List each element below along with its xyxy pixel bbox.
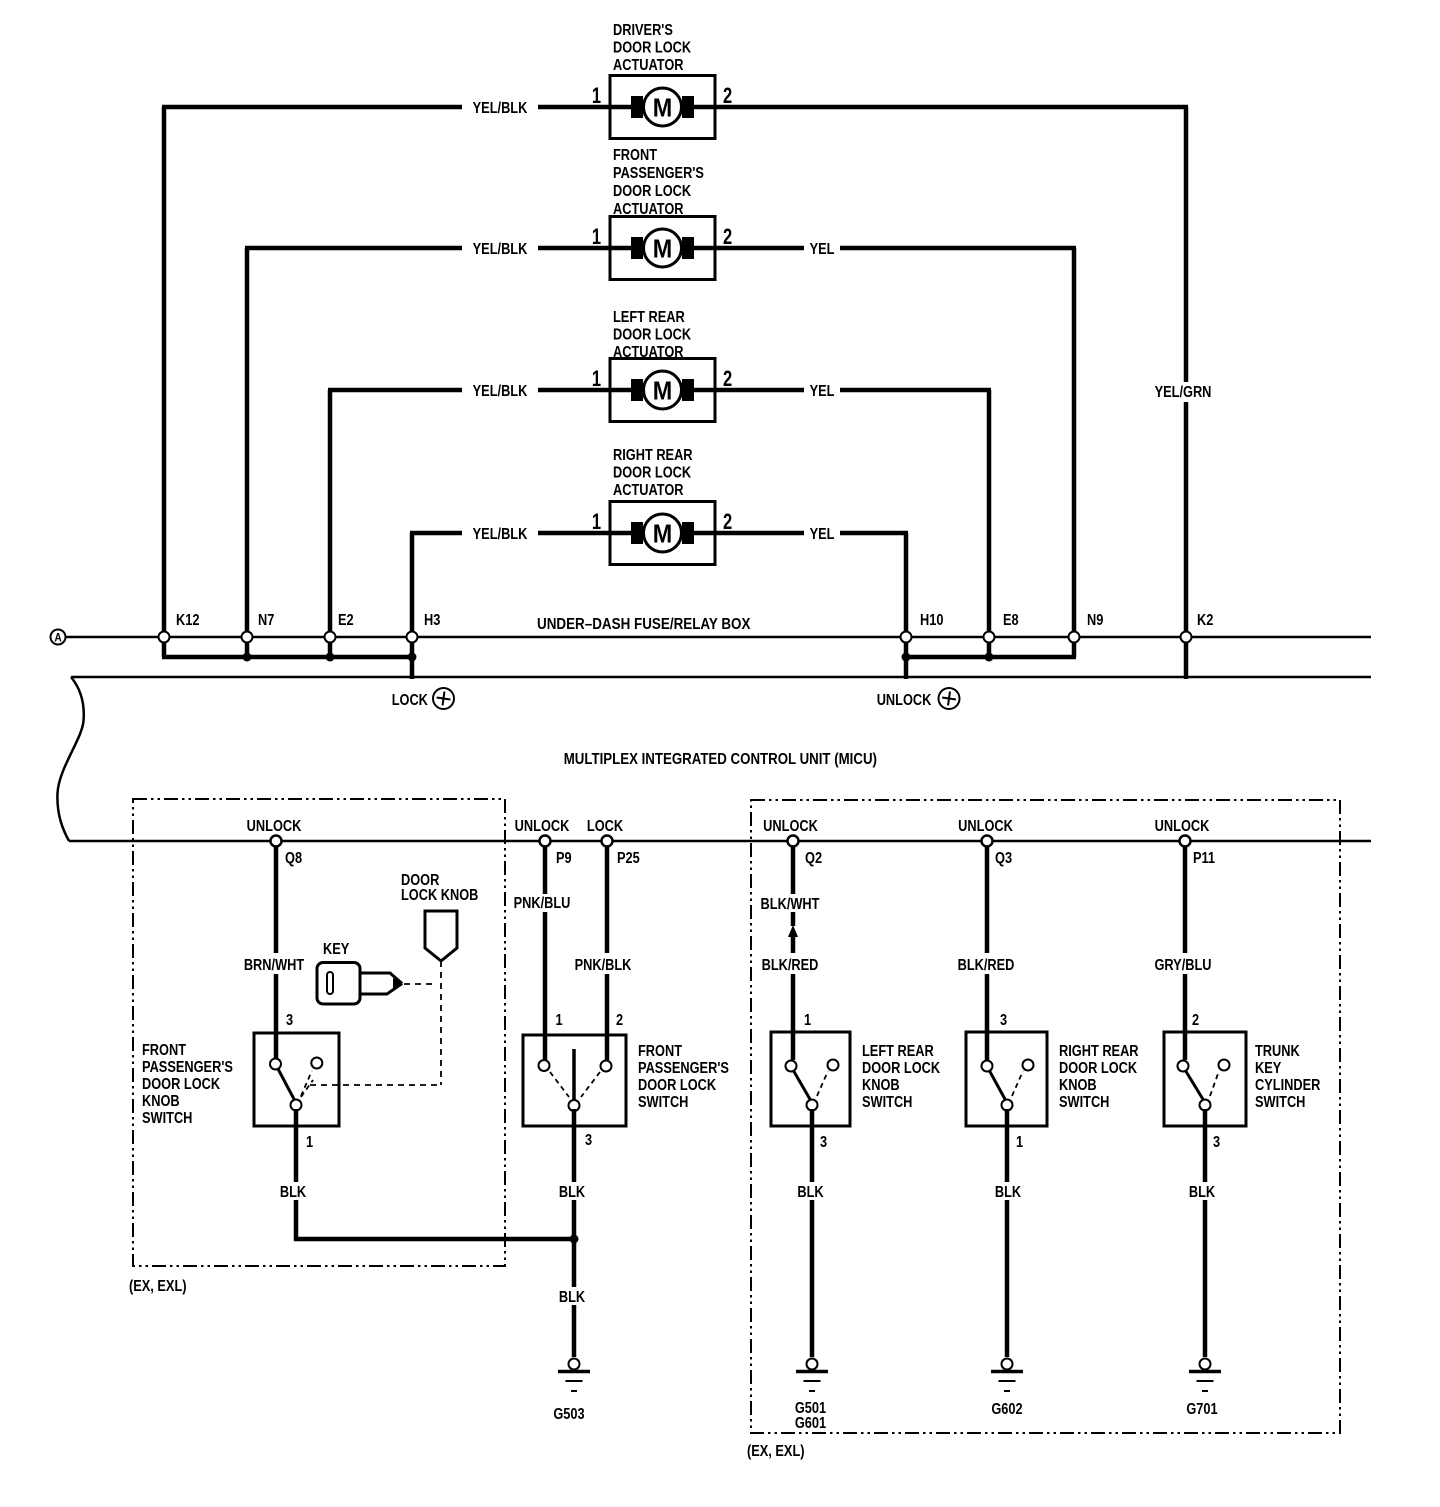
svg-text:DOOR LOCK: DOOR LOCK xyxy=(1059,1060,1138,1078)
svg-text:KNOB: KNOB xyxy=(1059,1077,1097,1095)
svg-text:YEL/BLK: YEL/BLK xyxy=(473,383,528,401)
svg-text:G701: G701 xyxy=(1186,1401,1217,1419)
svg-text:KEY: KEY xyxy=(323,941,350,959)
svg-text:DOOR LOCK: DOOR LOCK xyxy=(862,1060,941,1078)
svg-text:UNLOCK: UNLOCK xyxy=(877,692,932,710)
svg-text:UNLOCK: UNLOCK xyxy=(763,818,818,836)
svg-text:DOOR LOCK: DOOR LOCK xyxy=(142,1076,221,1094)
svg-text:FRONT: FRONT xyxy=(638,1043,682,1061)
svg-text:2: 2 xyxy=(1192,1012,1199,1030)
svg-text:ACTUATOR: ACTUATOR xyxy=(613,482,684,500)
svg-text:YEL: YEL xyxy=(810,526,835,544)
svg-text:(EX, EXL): (EX, EXL) xyxy=(747,1443,805,1461)
svg-text:KNOB: KNOB xyxy=(142,1093,180,1111)
svg-text:YEL/BLK: YEL/BLK xyxy=(473,100,528,118)
svg-text:KEY: KEY xyxy=(1255,1060,1282,1078)
svg-text:KNOB: KNOB xyxy=(862,1077,900,1095)
svg-text:LEFT REAR: LEFT REAR xyxy=(862,1043,934,1061)
svg-text:BLK/WHT: BLK/WHT xyxy=(761,896,820,914)
svg-text:2: 2 xyxy=(723,510,732,535)
svg-text:UNLOCK: UNLOCK xyxy=(1155,818,1210,836)
svg-text:LEFT REAR: LEFT REAR xyxy=(613,309,685,327)
svg-text:DRIVER'S: DRIVER'S xyxy=(613,22,673,40)
svg-text:PASSENGER'S: PASSENGER'S xyxy=(142,1059,233,1077)
svg-text:G601: G601 xyxy=(795,1415,826,1433)
svg-text:2: 2 xyxy=(616,1012,623,1030)
svg-text:MULTIPLEX INTEGRATED CONTROL U: MULTIPLEX INTEGRATED CONTROL UNIT (MICU) xyxy=(564,751,877,768)
svg-text:BLK/RED: BLK/RED xyxy=(958,957,1015,975)
svg-text:UNDER–DASH FUSE/RELAY BOX: UNDER–DASH FUSE/RELAY BOX xyxy=(537,616,751,633)
svg-text:DOOR LOCK: DOOR LOCK xyxy=(613,183,692,201)
svg-text:H10: H10 xyxy=(920,612,943,630)
svg-text:Q2: Q2 xyxy=(805,850,822,868)
svg-text:2: 2 xyxy=(723,225,732,250)
svg-text:SWITCH: SWITCH xyxy=(142,1110,192,1128)
svg-text:3: 3 xyxy=(1000,1012,1007,1030)
svg-text:TRUNK: TRUNK xyxy=(1255,1043,1300,1061)
svg-text:1: 1 xyxy=(592,84,601,109)
svg-text:H3: H3 xyxy=(424,612,440,630)
svg-text:E8: E8 xyxy=(1003,612,1019,630)
svg-text:N9: N9 xyxy=(1087,612,1103,630)
svg-text:PASSENGER'S: PASSENGER'S xyxy=(613,165,704,183)
svg-text:G602: G602 xyxy=(991,1401,1022,1419)
svg-text:M: M xyxy=(653,235,672,263)
svg-text:LOCK: LOCK xyxy=(392,692,429,710)
svg-text:SWITCH: SWITCH xyxy=(638,1094,688,1112)
svg-text:ACTUATOR: ACTUATOR xyxy=(613,57,684,75)
svg-text:DOOR LOCK: DOOR LOCK xyxy=(613,464,692,482)
svg-text:DOOR LOCK: DOOR LOCK xyxy=(613,39,692,57)
svg-text:BLK: BLK xyxy=(995,1184,1022,1202)
svg-text:RIGHT REAR: RIGHT REAR xyxy=(1059,1043,1139,1061)
svg-text:BRN/WHT: BRN/WHT xyxy=(244,957,304,975)
svg-text:LOCK: LOCK xyxy=(587,818,624,836)
svg-text:M: M xyxy=(653,377,672,405)
svg-text:UNLOCK: UNLOCK xyxy=(958,818,1013,836)
svg-text:G503: G503 xyxy=(553,1406,584,1424)
svg-text:M: M xyxy=(653,520,672,548)
svg-text:BLK: BLK xyxy=(1189,1184,1216,1202)
svg-text:3: 3 xyxy=(1213,1134,1220,1152)
svg-text:(EX, EXL): (EX, EXL) xyxy=(129,1278,187,1296)
svg-text:K2: K2 xyxy=(1197,612,1213,630)
svg-text:P9: P9 xyxy=(556,850,572,868)
svg-text:DOOR LOCK: DOOR LOCK xyxy=(638,1077,717,1095)
svg-text:FRONT: FRONT xyxy=(613,147,657,165)
svg-text:DOOR LOCK: DOOR LOCK xyxy=(613,326,692,344)
svg-text:UNLOCK: UNLOCK xyxy=(247,818,302,836)
svg-text:BLK: BLK xyxy=(797,1184,824,1202)
svg-text:PNK/BLU: PNK/BLU xyxy=(514,895,571,913)
svg-text:1: 1 xyxy=(804,1012,811,1030)
svg-text:GRY/BLU: GRY/BLU xyxy=(1154,957,1211,975)
svg-text:2: 2 xyxy=(723,367,732,392)
svg-text:E2: E2 xyxy=(338,612,354,630)
svg-text:P25: P25 xyxy=(617,850,640,868)
svg-text:1: 1 xyxy=(1016,1134,1023,1152)
svg-text:N7: N7 xyxy=(258,612,274,630)
svg-text:PNK/BLK: PNK/BLK xyxy=(575,957,632,975)
svg-text:CYLINDER: CYLINDER xyxy=(1255,1077,1321,1095)
svg-text:SWITCH: SWITCH xyxy=(1255,1094,1305,1112)
svg-text:K12: K12 xyxy=(176,612,199,630)
svg-text:YEL/BLK: YEL/BLK xyxy=(473,241,528,259)
svg-text:1: 1 xyxy=(306,1134,313,1152)
svg-text:BLK/RED: BLK/RED xyxy=(762,957,819,975)
svg-text:1: 1 xyxy=(592,225,601,250)
svg-text:RIGHT REAR: RIGHT REAR xyxy=(613,447,693,465)
svg-text:3: 3 xyxy=(820,1134,827,1152)
svg-text:1: 1 xyxy=(556,1012,563,1030)
svg-text:3: 3 xyxy=(585,1132,592,1150)
svg-text:PASSENGER'S: PASSENGER'S xyxy=(638,1060,729,1078)
svg-text:2: 2 xyxy=(723,84,732,109)
svg-text:YEL: YEL xyxy=(810,241,835,259)
svg-text:SWITCH: SWITCH xyxy=(1059,1094,1109,1112)
svg-text:BLK: BLK xyxy=(559,1184,586,1202)
svg-text:Q3: Q3 xyxy=(995,850,1012,868)
svg-text:BLK: BLK xyxy=(280,1184,307,1202)
svg-text:YEL/GRN: YEL/GRN xyxy=(1155,384,1212,402)
svg-text:FRONT: FRONT xyxy=(142,1042,186,1060)
svg-text:BLK: BLK xyxy=(559,1289,586,1307)
svg-text:1: 1 xyxy=(592,367,601,392)
svg-text:A: A xyxy=(54,632,61,645)
svg-text:SWITCH: SWITCH xyxy=(862,1094,912,1112)
svg-text:1: 1 xyxy=(592,510,601,535)
svg-text:YEL: YEL xyxy=(810,383,835,401)
svg-text:UNLOCK: UNLOCK xyxy=(515,818,570,836)
svg-text:Q8: Q8 xyxy=(285,850,302,868)
svg-text:P11: P11 xyxy=(1193,850,1215,868)
svg-text:M: M xyxy=(653,94,672,122)
svg-text:LOCK KNOB: LOCK KNOB xyxy=(401,887,478,905)
svg-text:YEL/BLK: YEL/BLK xyxy=(473,526,528,544)
svg-text:3: 3 xyxy=(286,1012,293,1030)
